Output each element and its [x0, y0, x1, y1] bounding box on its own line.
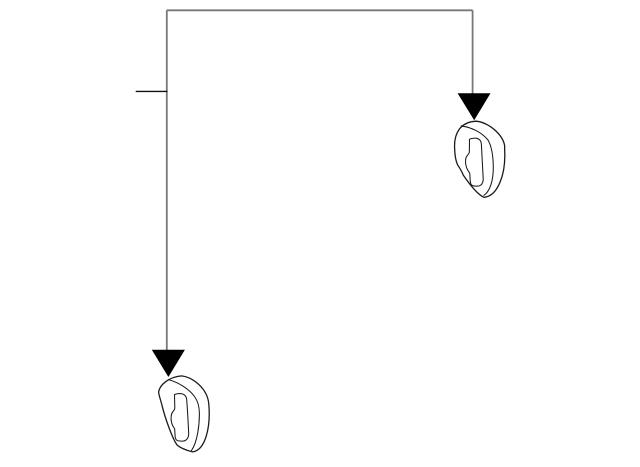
front face rim (bottom-left grommet): [169, 380, 199, 451]
leader line: right vertical: [472, 10, 474, 94]
front face rim (top-right grommet): [461, 126, 494, 196]
leader tick: short horizontal stub: [136, 90, 168, 92]
leader line: left vertical: [166, 10, 168, 350]
leader line: top horizontal: [167, 9, 473, 11]
outer silhouette (bottom-left grommet): [159, 376, 210, 452]
keyhole cutout (bottom-left grommet): [171, 394, 189, 442]
outer silhouette (top-right grommet): [455, 121, 505, 197]
keyhole cutout (top-right grommet): [465, 138, 483, 186]
grommet part: top right: [455, 121, 505, 197]
arrowhead: bottom left: [152, 350, 185, 377]
grommet part: bottom left: [159, 376, 210, 452]
arrowhead: top right: [458, 93, 491, 120]
